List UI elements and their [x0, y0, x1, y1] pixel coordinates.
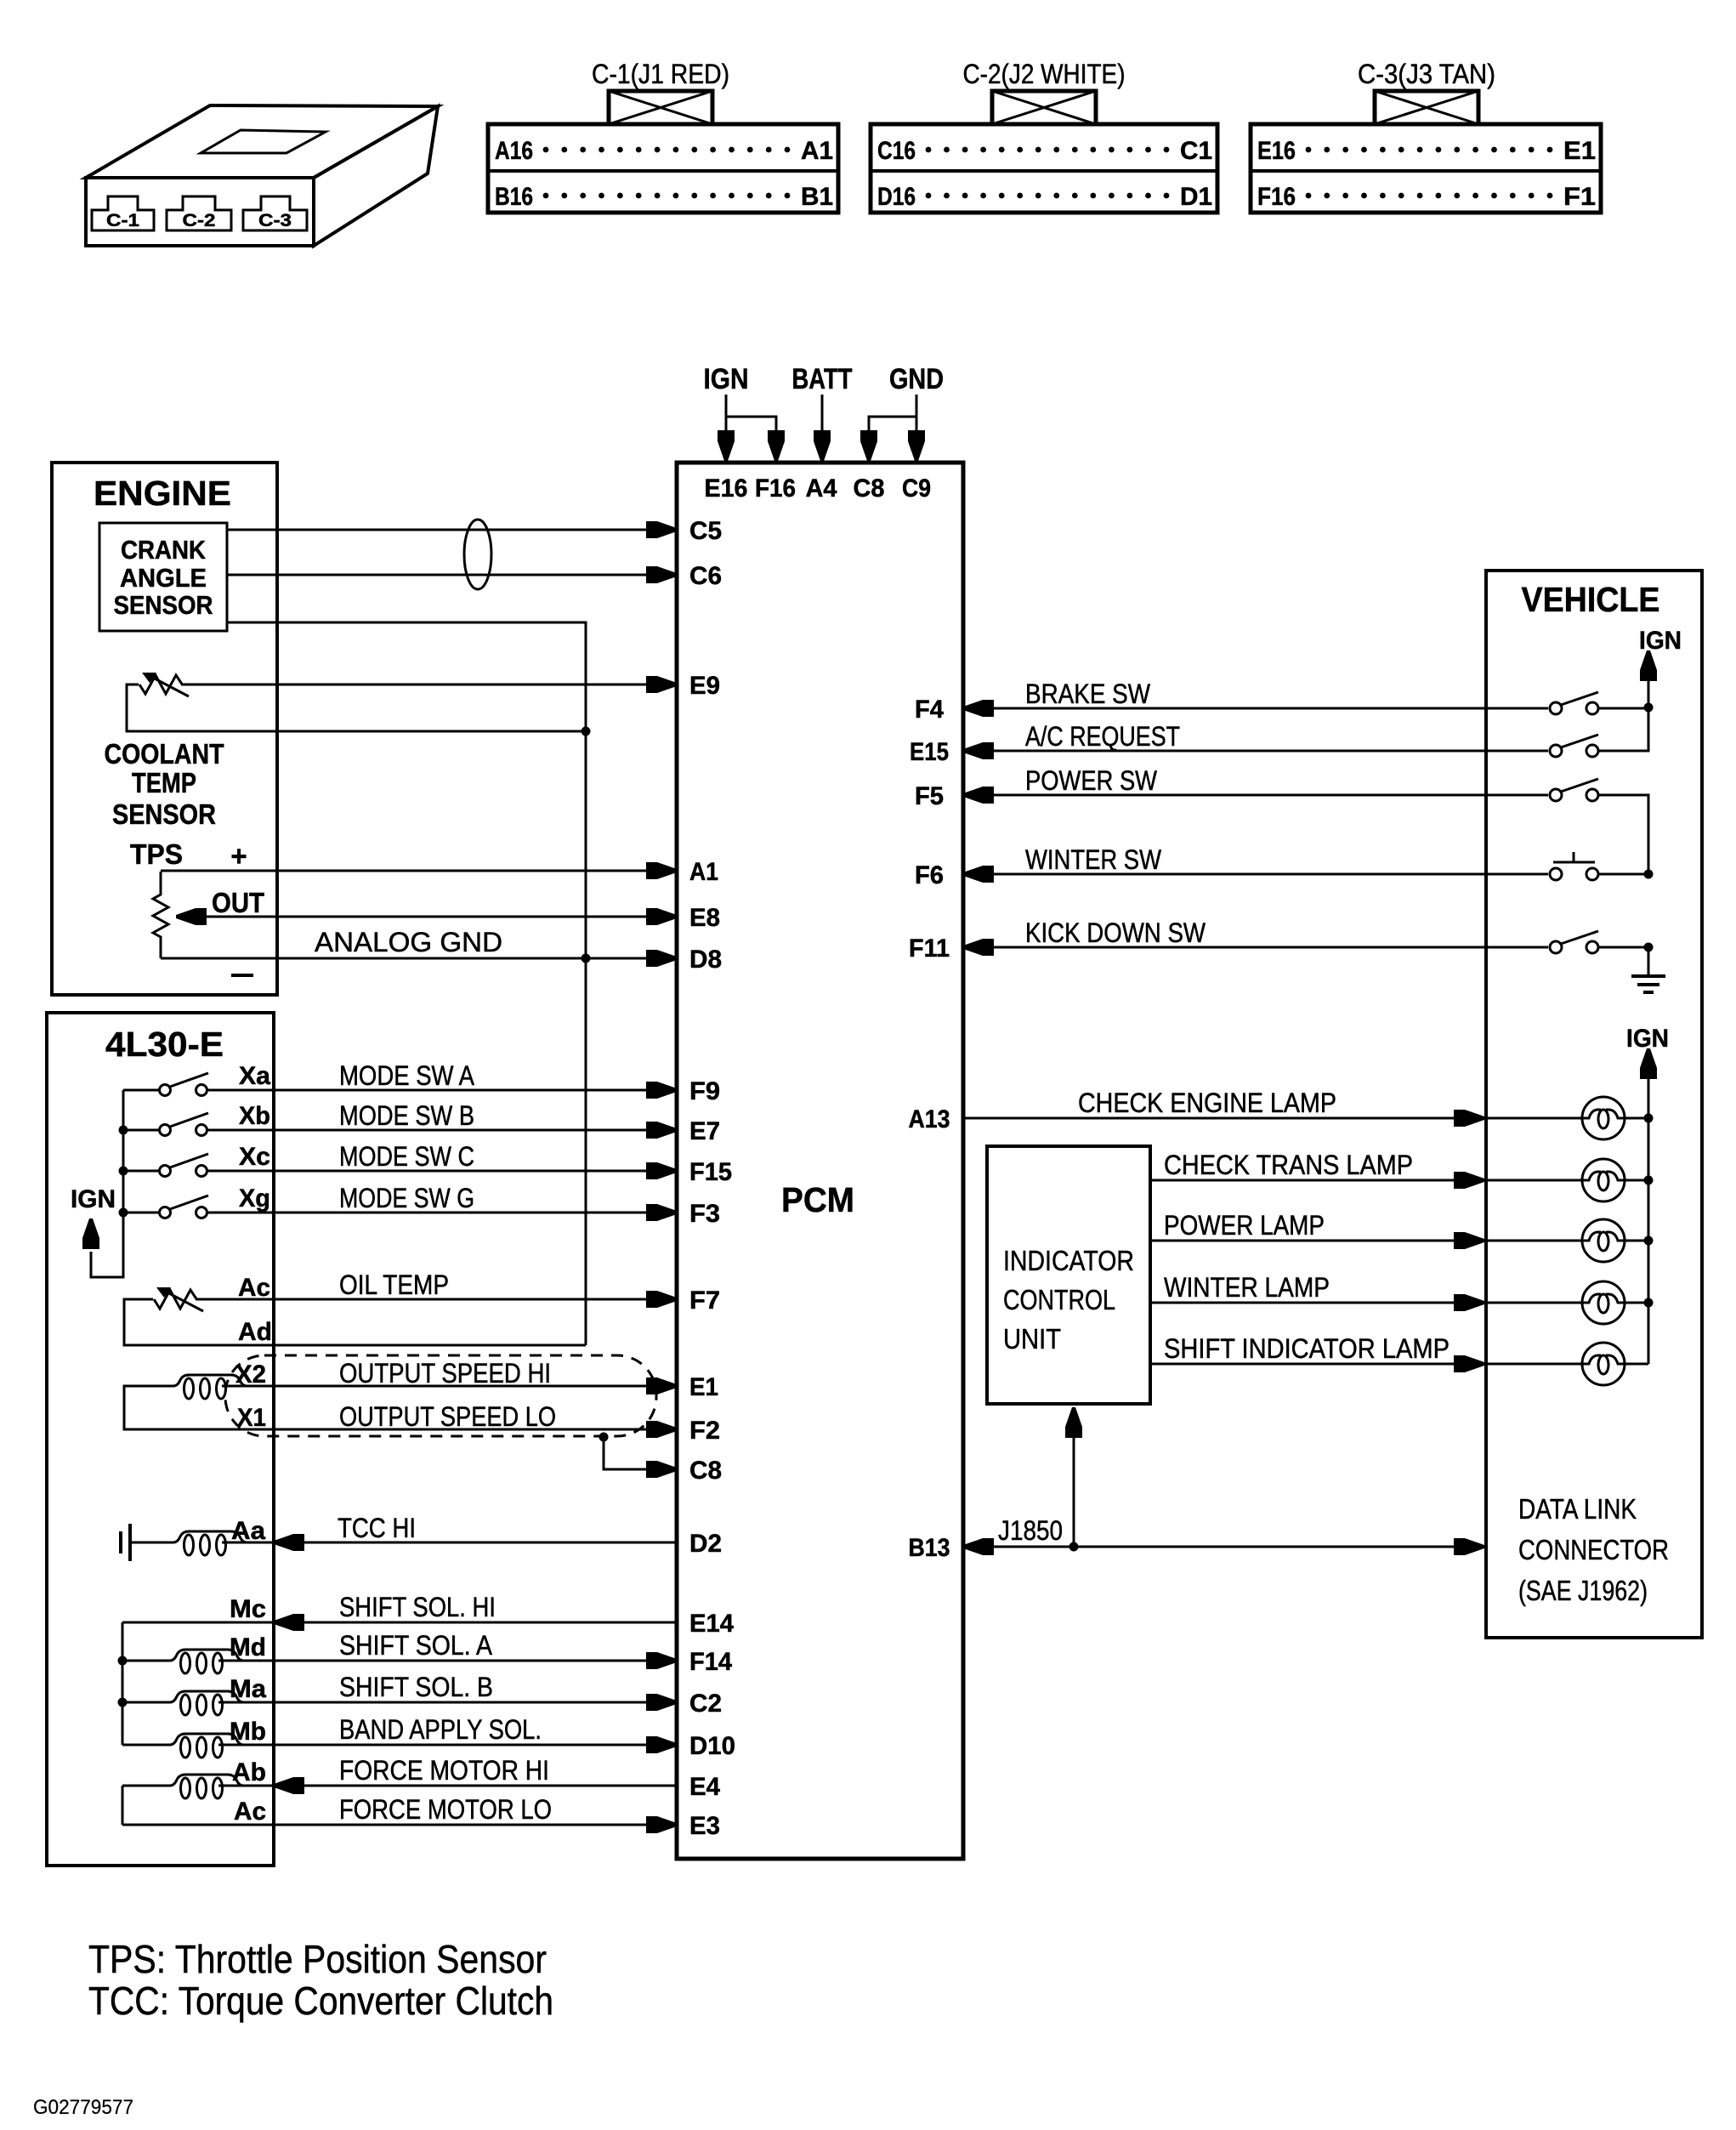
- connector tab C-1: [92, 196, 154, 230]
- svg-text:Ma: Ma: [230, 1675, 266, 1703]
- crank angle sensor box: [99, 523, 227, 631]
- wire ICU to WINTER LAMP: [1150, 1294, 1582, 1311]
- svg-text:TPS: TPS: [130, 838, 183, 870]
- wire BATT to pin A4: [814, 395, 831, 461]
- svg-text:WINTER LAMP: WINTER LAMP: [1164, 1272, 1330, 1303]
- svg-text:C-2: C-2: [183, 211, 216, 230]
- svg-text:B13: B13: [909, 1534, 950, 1562]
- wire A13 to check engine lamp: [963, 1110, 1582, 1127]
- wire J1850 to ICU: [1065, 1407, 1082, 1547]
- svg-text:TCC HI: TCC HI: [338, 1513, 416, 1543]
- svg-text:F1: F1: [1563, 183, 1596, 211]
- switch Xg: [123, 1196, 208, 1218]
- wire Xc to PCM: [207, 1162, 677, 1179]
- svg-text:E15: E15: [910, 738, 949, 766]
- wire winter sw to gnd bus: [1599, 870, 1654, 879]
- svg-text:Ad: Ad: [238, 1318, 272, 1346]
- svg-text:MODE SW A: MODE SW A: [339, 1060, 475, 1091]
- svg-text:Xa: Xa: [239, 1062, 270, 1090]
- pin row B16-B1: [495, 183, 833, 211]
- wire TPS wiper to E8: [176, 908, 677, 925]
- svg-text:E16: E16: [1257, 137, 1296, 165]
- wire force motor hi to E4: [122, 1777, 677, 1794]
- wire IGN to pins E16 F16: [718, 395, 785, 461]
- svg-text:A4: A4: [806, 474, 837, 503]
- svg-text:POWER SW: POWER SW: [1025, 765, 1158, 796]
- svg-text:A1: A1: [801, 137, 833, 165]
- wire mode switch bus: [91, 1090, 128, 1277]
- svg-text:A13: A13: [909, 1105, 950, 1133]
- wire SHIFT INDICATOR LAMP to IGN bus: [1625, 1363, 1648, 1366]
- wire a/c to IGN bus: [1599, 708, 1648, 751]
- svg-text:ANGLE: ANGLE: [120, 563, 207, 593]
- svg-text:X2: X2: [235, 1360, 266, 1389]
- svg-text:IGN: IGN: [71, 1185, 116, 1213]
- inductor TCC solenoid Aa: [151, 1531, 269, 1542]
- svg-text:SENSOR: SENSOR: [112, 798, 216, 830]
- ENGINE box: [52, 463, 277, 995]
- svg-text:F6: F6: [915, 861, 944, 889]
- switch brake: [1550, 692, 1598, 714]
- label COOLANT TEMP SENSOR: [105, 738, 224, 830]
- label CRANK ANGLE SENSOR: [114, 535, 213, 620]
- svg-text:E3: E3: [689, 1812, 720, 1840]
- svg-text:CONNECTOR: CONNECTOR: [1518, 1534, 1669, 1565]
- label DATA LINK CONNECTOR: [1518, 1493, 1669, 1606]
- svg-text:A/C REQUEST: A/C REQUEST: [1025, 721, 1180, 752]
- ground TCC: [121, 1524, 130, 1561]
- svg-text:Xb: Xb: [239, 1102, 270, 1130]
- switch Xc: [123, 1154, 208, 1177]
- svg-text:Md: Md: [230, 1633, 266, 1661]
- svg-text:Ab: Ab: [232, 1758, 266, 1786]
- PCM module 3D box: [86, 105, 438, 246]
- wire IGN feed: [1640, 650, 1657, 707]
- shield dashed outline output speed: [225, 1355, 656, 1436]
- lamp WINTER LAMP: [1582, 1281, 1625, 1324]
- switch kick down: [1550, 931, 1598, 953]
- wire solenoid bus 2: [122, 1786, 124, 1825]
- svg-text:F7: F7: [689, 1287, 720, 1315]
- wire Xb to PCM: [207, 1122, 677, 1139]
- inductor Md: [148, 1650, 266, 1661]
- connector tab C-3: [243, 196, 307, 230]
- svg-text:F15: F15: [689, 1158, 732, 1186]
- shield ellipse on CAS wires: [464, 520, 491, 589]
- svg-text:BATT: BATT: [792, 363, 853, 395]
- wire CHECK ENGINE LAMP to IGN bus: [1625, 1114, 1654, 1123]
- svg-text:DATA LINK: DATA LINK: [1518, 1493, 1637, 1525]
- svg-text:G02779577: G02779577: [33, 2096, 133, 2119]
- svg-text:ENGINE: ENGINE: [94, 474, 231, 513]
- lamp POWER LAMP: [1582, 1219, 1625, 1262]
- svg-text:SHIFT SOL. B: SHIFT SOL. B: [339, 1672, 493, 1702]
- svg-text:POWER LAMP: POWER LAMP: [1164, 1210, 1325, 1241]
- lamp SHIFT INDICATOR LAMP: [1582, 1343, 1625, 1385]
- svg-text:D8: D8: [689, 946, 722, 974]
- wire CAS to C6: [227, 566, 677, 583]
- svg-text:C-1(J1 RED): C-1(J1 RED): [592, 59, 729, 89]
- svg-text:TPS: Throttle Position Sensor: TPS: Throttle Position Sensor: [88, 1937, 547, 1981]
- wire winter sw to F6: [963, 866, 1548, 883]
- svg-text:INDICATOR: INDICATOR: [1003, 1245, 1134, 1276]
- svg-text:IGN: IGN: [1639, 627, 1682, 655]
- svg-text:A1: A1: [689, 858, 718, 886]
- pin row A16-A1: [495, 137, 833, 165]
- svg-text:A16: A16: [495, 137, 533, 165]
- svg-text:CONTROL: CONTROL: [1003, 1284, 1115, 1315]
- wire analog gnd to D8: [161, 950, 677, 967]
- wire brake sw to F4: [963, 700, 1548, 717]
- svg-text:C5: C5: [689, 517, 722, 545]
- potentiometer TPS: [153, 872, 168, 958]
- svg-text:Mc: Mc: [230, 1595, 266, 1623]
- connector body C-1(J1 RED): [488, 124, 838, 213]
- wire shift sol A to F14: [122, 1652, 677, 1669]
- svg-text:D2: D2: [689, 1530, 722, 1558]
- svg-text:+: +: [230, 840, 247, 872]
- svg-text:OUTPUT SPEED HI: OUTPUT SPEED HI: [339, 1358, 551, 1389]
- svg-text:F4: F4: [915, 696, 944, 724]
- wire CAS ground to analog bus: [227, 622, 586, 1345]
- svg-text:Xg: Xg: [239, 1184, 270, 1213]
- connector body C-2(J2 WHITE): [871, 124, 1217, 213]
- svg-text:SHIFT SOL. A: SHIFT SOL. A: [339, 1630, 493, 1661]
- svg-text:C16: C16: [877, 137, 916, 165]
- svg-text:E16: E16: [705, 474, 748, 503]
- svg-text:Mb: Mb: [230, 1718, 266, 1746]
- svg-text:E8: E8: [689, 904, 720, 932]
- connector keyway C-3(J3 TAN): [1375, 91, 1478, 124]
- wire power sw to gnd bus: [1599, 795, 1648, 874]
- op-amp PCM box: [677, 463, 963, 1859]
- wire oil temp return Ad: [124, 1299, 586, 1345]
- svg-text:F16: F16: [755, 474, 796, 503]
- pin row F16-F1: [1257, 183, 1596, 211]
- svg-text:GND: GND: [889, 363, 944, 395]
- indicator control unit box: [987, 1146, 1150, 1404]
- arrow IGN up: [82, 1218, 99, 1249]
- svg-text:CRANK: CRANK: [121, 535, 207, 565]
- wire ground to coil: [130, 1542, 151, 1544]
- wire band apply sol to D10: [122, 1736, 677, 1753]
- svg-text:IGN: IGN: [704, 363, 749, 395]
- wire J1850 B13: [963, 1538, 1484, 1555]
- svg-text:B16: B16: [495, 183, 533, 211]
- connector keyway C-1(J1 RED): [609, 91, 712, 124]
- svg-text:C-1: C-1: [106, 211, 139, 230]
- wire IGN lamp bus: [1640, 1048, 1657, 1364]
- wire TPS+ to A1: [161, 862, 677, 879]
- svg-text:E1: E1: [1563, 137, 1596, 165]
- wire shift sol hi to E14: [122, 1614, 677, 1631]
- svg-text:D10: D10: [689, 1732, 735, 1760]
- svg-text:TCC: Torque Converter Clutch: TCC: Torque Converter Clutch: [88, 1979, 553, 2023]
- svg-text:F2: F2: [689, 1417, 720, 1445]
- switch Xa: [123, 1073, 208, 1096]
- svg-text:CHECK ENGINE LAMP: CHECK ENGINE LAMP: [1078, 1088, 1336, 1118]
- inductor Mb: [148, 1734, 266, 1745]
- connector keyway C-2(J2 WHITE): [992, 91, 1096, 124]
- svg-text:Ac: Ac: [234, 1798, 266, 1826]
- ground vehicle switches: [1631, 947, 1665, 992]
- svg-text:C9: C9: [902, 474, 931, 503]
- wire WINTER LAMP to IGN bus: [1625, 1298, 1654, 1308]
- wire output speed hi to E1: [222, 1377, 677, 1394]
- label INDICATOR CONTROL UNIT: [1003, 1245, 1134, 1355]
- svg-text:SENSOR: SENSOR: [114, 590, 213, 620]
- svg-text:F11: F11: [909, 934, 950, 963]
- svg-text:B1: B1: [801, 183, 833, 211]
- svg-text:FORCE MOTOR HI: FORCE MOTOR HI: [339, 1755, 549, 1786]
- svg-text:F5: F5: [915, 782, 944, 810]
- svg-text:TEMP: TEMP: [132, 767, 196, 798]
- svg-text:C-2(J2 WHITE): C-2(J2 WHITE): [963, 59, 1126, 89]
- wire a/c to E15: [963, 742, 1548, 759]
- wire coolant sensor to E9: [182, 676, 677, 693]
- wire POWER LAMP to IGN bus: [1625, 1236, 1654, 1246]
- svg-text:SHIFT INDICATOR LAMP: SHIFT INDICATOR LAMP: [1164, 1333, 1450, 1364]
- pin row E16-E1: [1257, 137, 1596, 165]
- switch power: [1550, 779, 1598, 801]
- wire shield drain to C8: [599, 1433, 678, 1479]
- connector body C-3(J3 TAN): [1251, 124, 1601, 213]
- svg-text:F3: F3: [689, 1200, 720, 1228]
- svg-text:Aa: Aa: [231, 1517, 265, 1545]
- pin labels E16 F16 A4 C8 C9: [705, 474, 932, 503]
- svg-text:OIL TEMP: OIL TEMP: [339, 1269, 449, 1300]
- svg-text:COOLANT: COOLANT: [105, 738, 224, 770]
- svg-text:X1: X1: [237, 1404, 266, 1432]
- svg-text:D16: D16: [877, 183, 916, 211]
- svg-text:SHIFT SOL. HI: SHIFT SOL. HI: [339, 1592, 496, 1622]
- svg-text:E14: E14: [689, 1610, 734, 1638]
- svg-text:KICK DOWN SW: KICK DOWN SW: [1025, 917, 1206, 948]
- wire GND to pins C8 C9: [860, 395, 925, 461]
- svg-text:C8: C8: [854, 474, 885, 503]
- svg-text:C2: C2: [689, 1690, 722, 1718]
- svg-text:C6: C6: [689, 562, 722, 590]
- svg-text:Xc: Xc: [239, 1143, 270, 1171]
- wire CAS to C5: [227, 521, 677, 538]
- switch winter pushbutton: [1550, 852, 1598, 880]
- wire TCC HI to D2: [222, 1534, 677, 1551]
- svg-text:OUT: OUT: [212, 887, 264, 918]
- label minus: [231, 974, 253, 977]
- wire coolant sensor return: [127, 684, 591, 736]
- inductor output speed sensor: [151, 1375, 269, 1386]
- svg-text:4L30-E: 4L30-E: [105, 1025, 224, 1064]
- wire kick down to F11: [963, 939, 1548, 956]
- inductor Ma: [148, 1691, 266, 1702]
- connector tab C-2: [167, 196, 231, 230]
- svg-text:F16: F16: [1257, 183, 1296, 211]
- svg-text:WINTER SW: WINTER SW: [1025, 844, 1162, 875]
- svg-text:E7: E7: [689, 1117, 720, 1145]
- svg-text:VEHICLE: VEHICLE: [1522, 580, 1660, 619]
- wire ICU to CHECK TRANS LAMP: [1150, 1172, 1582, 1189]
- svg-text:C-3: C-3: [258, 211, 292, 230]
- inductor Ab: [148, 1775, 266, 1786]
- svg-text:UNIT: UNIT: [1003, 1323, 1061, 1355]
- svg-text:BAND APPLY SOL.: BAND APPLY SOL.: [339, 1714, 542, 1745]
- svg-text:J1850: J1850: [998, 1515, 1063, 1546]
- svg-text:E1: E1: [689, 1373, 718, 1401]
- wire force motor lo to E3: [122, 1816, 677, 1833]
- wire CHECK TRANS LAMP to IGN bus: [1625, 1176, 1654, 1185]
- switch Xb: [123, 1113, 208, 1136]
- wire ICU to SHIFT INDICATOR LAMP: [1150, 1355, 1582, 1372]
- wire output speed lo to F2: [124, 1386, 677, 1438]
- switch a/c: [1550, 735, 1598, 757]
- svg-text:F14: F14: [689, 1648, 732, 1676]
- svg-text:C-3(J3 TAN): C-3(J3 TAN): [1358, 59, 1495, 89]
- svg-text:E4: E4: [689, 1773, 720, 1801]
- svg-text:C1: C1: [1180, 137, 1212, 165]
- thermistor coolant temp sensor: [139, 673, 189, 696]
- lamp CHECK TRANS LAMP: [1582, 1159, 1625, 1201]
- pin row C16-C1: [877, 137, 1212, 165]
- svg-text:FORCE MOTOR LO: FORCE MOTOR LO: [339, 1794, 552, 1825]
- wire kick down to gnd bus: [1599, 943, 1654, 952]
- svg-text:BRAKE SW: BRAKE SW: [1025, 679, 1151, 709]
- wire Xa to PCM: [207, 1082, 677, 1099]
- wire power sw to F5: [963, 787, 1548, 804]
- wire shift sol B to C2: [122, 1694, 677, 1711]
- svg-text:(SAE J1962): (SAE J1962): [1518, 1575, 1648, 1606]
- svg-text:CHECK TRANS LAMP: CHECK TRANS LAMP: [1164, 1150, 1413, 1180]
- 4L30-E box: [47, 1013, 274, 1866]
- svg-text:OUTPUT SPEED LO: OUTPUT SPEED LO: [339, 1401, 556, 1432]
- wire Xg to PCM: [207, 1204, 677, 1221]
- VEHICLE box: [1486, 571, 1702, 1638]
- svg-text:Ac: Ac: [238, 1274, 270, 1302]
- svg-text:ANALOG GND: ANALOG GND: [315, 927, 502, 957]
- lamp CHECK ENGINE LAMP: [1582, 1097, 1625, 1139]
- svg-text:E9: E9: [689, 672, 720, 700]
- wire solenoid bus 1: [118, 1622, 128, 1745]
- svg-text:F9: F9: [689, 1077, 720, 1105]
- svg-text:D1: D1: [1180, 183, 1212, 211]
- svg-text:PCM: PCM: [781, 1180, 854, 1219]
- wire brake sw to IGN: [1599, 703, 1654, 713]
- wire oil temp to F7: [196, 1291, 677, 1308]
- svg-text:C8: C8: [689, 1457, 722, 1485]
- pin row D16-D1: [877, 183, 1212, 211]
- wire ICU to POWER LAMP: [1150, 1232, 1582, 1249]
- thermistor oil temp sensor: [154, 1287, 203, 1311]
- svg-text:MODE SW C: MODE SW C: [339, 1141, 474, 1172]
- svg-text:MODE SW G: MODE SW G: [339, 1183, 474, 1213]
- svg-text:MODE SW B: MODE SW B: [339, 1100, 474, 1131]
